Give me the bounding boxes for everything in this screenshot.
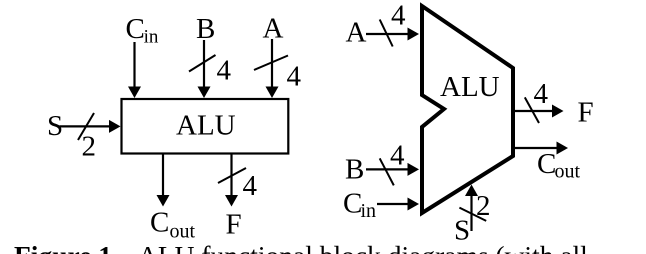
svg-text:ALU: ALU — [176, 110, 236, 142]
svg-text:in: in — [144, 27, 159, 48]
svg-text:ALU: ALU — [440, 71, 500, 103]
svg-text:in: in — [361, 200, 377, 222]
svg-text:2: 2 — [82, 131, 97, 163]
svg-text:A: A — [346, 17, 367, 49]
svg-text:4: 4 — [287, 61, 302, 93]
svg-text:2: 2 — [476, 190, 491, 222]
svg-text:out: out — [555, 161, 581, 183]
svg-text:C: C — [537, 148, 556, 180]
svg-text:4: 4 — [217, 55, 232, 87]
svg-text:4: 4 — [243, 170, 258, 202]
svg-text:Figure 1.: Figure 1. — [14, 240, 119, 254]
svg-text:4: 4 — [390, 140, 405, 172]
svg-text:B: B — [345, 154, 364, 186]
svg-text:4: 4 — [391, 0, 406, 32]
svg-text:4: 4 — [534, 78, 549, 110]
svg-text:C: C — [126, 13, 145, 45]
svg-text:C: C — [343, 188, 362, 220]
svg-text:ALU functional block diagrams: ALU functional block diagrams (with all — [138, 240, 588, 254]
svg-text:F: F — [226, 209, 242, 241]
svg-text:B: B — [196, 13, 215, 45]
svg-text:F: F — [578, 97, 594, 129]
svg-text:C: C — [150, 207, 169, 239]
